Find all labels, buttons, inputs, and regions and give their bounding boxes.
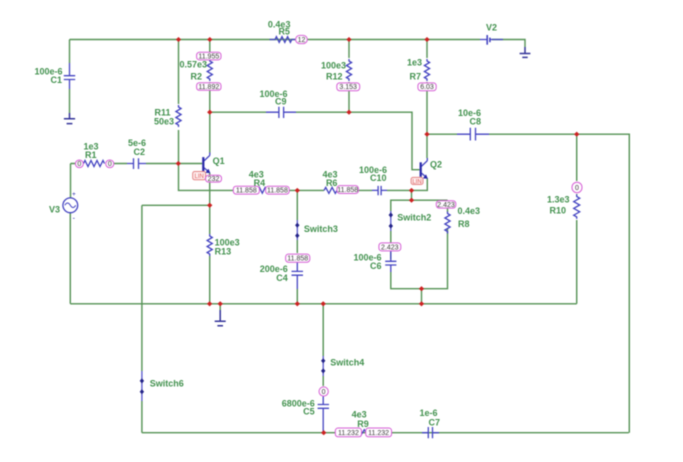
svg-text:+: + [72, 191, 76, 198]
svg-text:R7: R7 [409, 72, 421, 82]
svg-text:1e3: 1e3 [407, 57, 422, 67]
svg-text:R4: R4 [254, 178, 266, 188]
svg-text:V3: V3 [49, 204, 60, 214]
svg-text:12: 12 [298, 37, 306, 44]
svg-text:Switch4: Switch4 [330, 358, 364, 368]
svg-text:2.423: 2.423 [437, 202, 455, 209]
svg-text:0.57e3: 0.57e3 [179, 60, 207, 70]
svg-text:0: 0 [77, 161, 81, 168]
svg-text:C6: C6 [370, 261, 382, 271]
svg-text:0: 0 [575, 185, 579, 192]
svg-text:0.4e3: 0.4e3 [458, 206, 481, 216]
svg-text:11.232: 11.232 [368, 430, 389, 437]
svg-text:Switch6: Switch6 [150, 378, 184, 388]
svg-text:R10: R10 [549, 206, 566, 216]
svg-text:C9: C9 [275, 97, 287, 107]
svg-text:1.3e3: 1.3e3 [547, 195, 570, 205]
svg-text:Switch3: Switch3 [304, 224, 338, 234]
svg-text:C1: C1 [50, 75, 62, 85]
svg-text:R2: R2 [190, 72, 202, 82]
svg-text:11.858: 11.858 [287, 256, 308, 263]
svg-text:6.03: 6.03 [420, 84, 434, 91]
svg-text:Switch2: Switch2 [397, 213, 431, 223]
svg-text:R12: R12 [326, 72, 343, 82]
svg-text:C2: C2 [133, 147, 145, 157]
svg-text:R1: R1 [85, 150, 97, 160]
svg-text:V2: V2 [486, 23, 497, 33]
svg-text:C5: C5 [303, 407, 315, 417]
svg-text:Q1: Q1 [213, 156, 225, 166]
svg-text:100e3: 100e3 [321, 60, 346, 70]
svg-text:R13: R13 [215, 246, 232, 256]
svg-text:C4: C4 [276, 273, 288, 283]
svg-text:R6: R6 [326, 178, 338, 188]
svg-text:R8: R8 [458, 219, 470, 229]
svg-text:LIN: LIN [195, 174, 204, 180]
svg-text:C8: C8 [469, 116, 481, 126]
svg-text:2.423: 2.423 [381, 244, 399, 251]
svg-text:11.232: 11.232 [338, 430, 359, 437]
svg-text:0: 0 [322, 389, 326, 396]
svg-text:C7: C7 [428, 417, 440, 427]
svg-text:232: 232 [208, 176, 220, 183]
svg-text:3.153: 3.153 [339, 84, 357, 91]
svg-text:0: 0 [108, 161, 112, 168]
svg-text:11.858: 11.858 [267, 188, 288, 195]
svg-text:LIN: LIN [412, 179, 421, 185]
svg-text:R9: R9 [357, 419, 369, 429]
svg-text:11.858: 11.858 [337, 187, 358, 194]
svg-text:11.858: 11.858 [236, 188, 257, 195]
svg-text:R5: R5 [278, 27, 290, 37]
svg-text:C10: C10 [370, 173, 387, 183]
svg-text:Q2: Q2 [430, 160, 442, 170]
svg-text:11.892: 11.892 [198, 84, 219, 91]
svg-text:50e3: 50e3 [154, 117, 174, 127]
